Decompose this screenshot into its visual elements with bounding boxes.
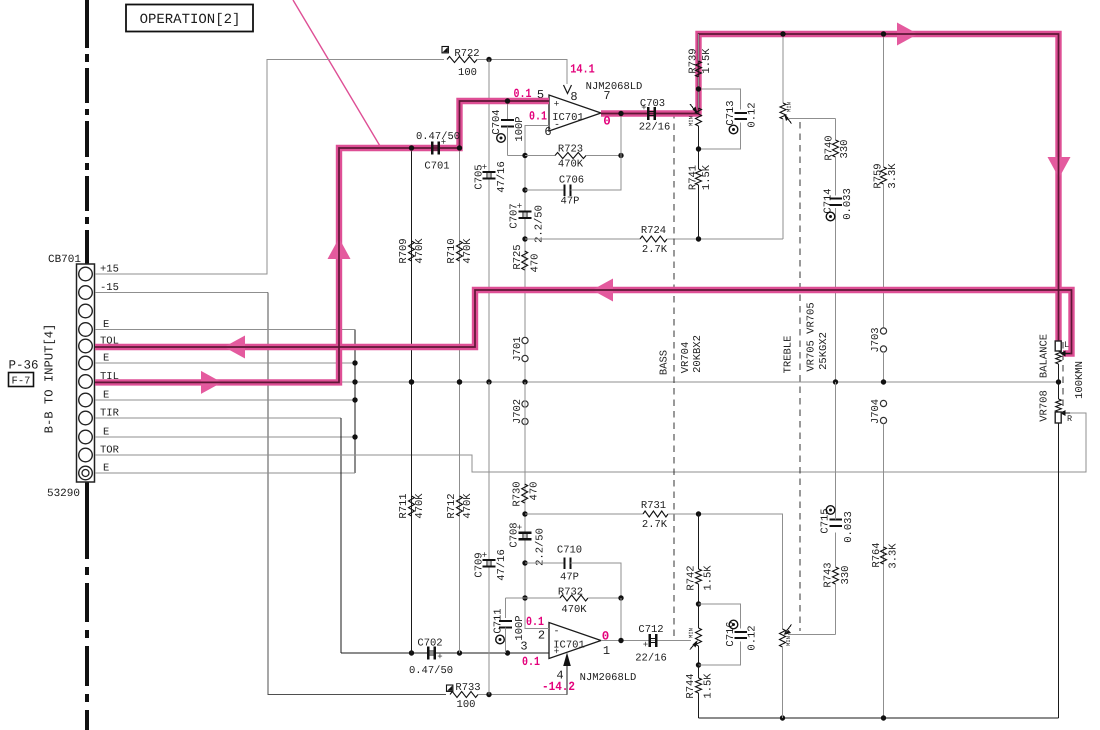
junction R711 bottom — [409, 650, 414, 655]
svg-text:R710: R710 — [446, 238, 458, 263]
capacitor C702 — [409, 638, 453, 678]
highlight TIL input path — [95, 101, 549, 382]
svg-text:47P: 47P — [561, 196, 580, 208]
resistor R724 row — [525, 225, 783, 256]
label BALANCE — [1039, 334, 1051, 378]
svg-text:25KGX2: 25KGX2 — [818, 332, 830, 370]
svg-text:+: + — [517, 523, 522, 533]
pin label E — [103, 463, 109, 475]
wire TIL from CB701 — [95, 381, 339, 383]
svg-text:14.1: 14.1 — [570, 63, 595, 77]
svg-text:C712: C712 — [638, 624, 663, 636]
junction C714 ground — [833, 379, 838, 384]
capacitor C707 — [509, 202, 546, 243]
value 0 pin7 — [603, 115, 611, 129]
page edge dash-dot border (top) — [85, 0, 89, 264]
svg-text:VR705 VR705: VR705 VR705 — [806, 302, 818, 371]
svg-text:C715: C715 — [820, 508, 832, 533]
svg-text:0.1: 0.1 — [522, 655, 540, 669]
resistor R744 — [685, 665, 715, 718]
highlight return arrow — [592, 279, 613, 302]
junction R731 tee — [522, 511, 527, 516]
value 0.1 pin3 — [522, 655, 540, 669]
label VR708 — [1039, 390, 1051, 422]
jumper J702 — [512, 399, 528, 425]
junction C716 top — [696, 601, 701, 606]
resistor R725 — [512, 244, 541, 272]
label VR705 VR705 — [806, 302, 818, 371]
connector CB701 body — [77, 264, 95, 482]
junction C713 top — [696, 86, 701, 91]
highlight right drop arrow — [1048, 157, 1071, 178]
E ground bus — [354, 330, 356, 474]
svg-text:470: 470 — [529, 254, 541, 273]
wire top line under highlight — [699, 33, 1059, 35]
wire E pin — [95, 362, 355, 364]
potentiometer VR705 treble (top) — [780, 102, 792, 239]
junction C705 ground — [486, 379, 491, 384]
svg-text:-14.2: -14.2 — [542, 680, 575, 694]
label 20KBX2 — [692, 335, 704, 373]
wire R733 to IC701 pin4 — [478, 667, 567, 695]
svg-text:0.47/50: 0.47/50 — [416, 131, 460, 143]
junction C716 bottom — [696, 662, 701, 667]
pin label TOR — [100, 445, 120, 457]
svg-text:2: 2 — [538, 629, 545, 643]
svg-text:P-36: P-36 — [8, 359, 38, 373]
junction pin2/C710 — [522, 560, 527, 565]
resistor R741 — [688, 149, 714, 239]
balance VR708 bottom terminal — [1055, 412, 1061, 718]
svg-text:R730: R730 — [512, 481, 524, 506]
capacitor C705 column — [488, 60, 490, 383]
V+ arrow pin8 — [564, 85, 572, 94]
resistor R733 — [447, 682, 481, 711]
value 0.1 pin5 — [514, 87, 532, 101]
capacitor C713 — [699, 89, 759, 149]
junction R709 ground — [409, 379, 414, 384]
pin 2 number — [538, 629, 545, 643]
svg-text:OPERATION[2]: OPERATION[2] — [140, 12, 241, 28]
pin 7 number — [603, 89, 610, 103]
value -14.2 — [542, 680, 575, 694]
value 14.1 — [570, 63, 595, 77]
wire treble wiper row bottom — [788, 634, 836, 636]
svg-text:BASS: BASS — [659, 350, 671, 375]
jumper J703 — [870, 327, 887, 382]
pin label TIR — [100, 408, 120, 420]
capacitor C709 — [474, 549, 509, 581]
svg-text:470K: 470K — [558, 159, 584, 171]
svg-text:R740: R740 — [824, 135, 836, 160]
svg-text:R733: R733 — [455, 682, 480, 694]
bass gang dashed line — [673, 112, 675, 639]
svg-text:3.3K: 3.3K — [887, 163, 899, 189]
svg-text:R744: R744 — [685, 673, 697, 698]
svg-text:NJM2068LD: NJM2068LD — [580, 672, 637, 684]
potentiometer VR704 bass (bottom) — [687, 604, 701, 665]
node -15 decoupling — [486, 692, 491, 697]
junction E bus — [352, 397, 357, 402]
pin label +15 — [100, 264, 119, 276]
svg-text:470K: 470K — [561, 604, 587, 616]
label B-B TO INPUT[4] — [43, 324, 57, 434]
connector CB701 label — [48, 254, 81, 266]
svg-text:0.1: 0.1 — [526, 615, 544, 629]
capacitor C701 — [416, 131, 460, 173]
svg-text:0.12: 0.12 — [747, 102, 759, 127]
svg-text:0.47/50: 0.47/50 — [409, 665, 453, 677]
pin label E — [103, 319, 109, 331]
svg-text:TREBLE: TREBLE — [783, 336, 795, 374]
junction R759 top — [881, 31, 886, 36]
wire +15 from CB701 — [95, 60, 444, 275]
wire C701 row — [339, 147, 460, 149]
label 100KMN — [1074, 361, 1086, 399]
wire pin5 row — [460, 100, 550, 102]
pin 1 number — [603, 644, 610, 658]
svg-text:6: 6 — [544, 125, 551, 139]
pin label TOL — [100, 336, 119, 348]
svg-text:MIN: MIN — [687, 628, 694, 638]
svg-text:100P: 100P — [514, 615, 526, 640]
junction R712 ground — [457, 379, 462, 384]
grid label P-36 — [8, 359, 38, 373]
svg-text:47/16: 47/16 — [496, 161, 508, 193]
svg-text:330: 330 — [840, 566, 852, 585]
svg-text:NJM2068LD: NJM2068LD — [586, 81, 643, 93]
svg-text:0: 0 — [602, 630, 610, 644]
label NJM2068LD (bottom) — [580, 672, 637, 684]
wire TIR from CB701 — [95, 417, 341, 419]
wire output row — [601, 113, 699, 115]
svg-text:R764: R764 — [871, 542, 883, 567]
junction R759 on highlight — [881, 31, 886, 36]
junction E bus — [352, 434, 357, 439]
svg-text:1: 1 — [603, 644, 610, 658]
resistor R711 — [398, 382, 426, 653]
svg-text:VR704: VR704 — [680, 342, 692, 374]
pin 8 number — [570, 90, 577, 104]
balance gang dashed line — [1062, 342, 1064, 413]
svg-text:2.2/50: 2.2/50 — [535, 528, 547, 566]
svg-text:+: + — [482, 551, 487, 561]
wire -15 from CB701 — [95, 292, 268, 294]
junction R710 top — [457, 145, 462, 150]
resistor R759 — [873, 34, 900, 328]
svg-text:8: 8 — [570, 90, 577, 104]
resistor R712 — [446, 382, 474, 653]
junction R764 rail — [881, 715, 886, 720]
wire output column — [620, 114, 622, 191]
node +15 decoupling — [486, 57, 491, 62]
label TREBLE — [783, 336, 795, 374]
svg-text:MIN: MIN — [687, 116, 694, 126]
svg-text:C714: C714 — [823, 188, 835, 213]
label 25KGX2 — [818, 332, 830, 370]
wire E pin — [95, 472, 355, 474]
svg-text:+: + — [437, 652, 442, 662]
capacitor C711 — [493, 598, 527, 653]
label NJM2068LD (top) — [586, 81, 643, 93]
resistor R710 — [446, 148, 474, 382]
wire TIR drop — [340, 418, 342, 653]
svg-text:C716: C716 — [725, 621, 737, 646]
junction R712 bottom — [457, 650, 462, 655]
ground rail — [341, 381, 1059, 383]
capacitor C712 — [635, 624, 667, 665]
svg-text:20KBX2: 20KBX2 — [692, 335, 704, 373]
junction C713 bottom — [696, 146, 701, 151]
jumper J704 — [870, 399, 887, 718]
value 0 pin1 — [602, 630, 610, 644]
wire output center — [601, 34, 1059, 344]
pin label E — [103, 353, 109, 365]
svg-text:0.033: 0.033 — [842, 188, 854, 220]
svg-text:470K: 470K — [414, 238, 426, 264]
highlight TIL arrow — [201, 371, 222, 394]
svg-text:IC701: IC701 — [552, 112, 584, 124]
svg-text:-: - — [553, 627, 559, 638]
junction R709 top — [409, 145, 414, 150]
junction balance ground — [1056, 379, 1061, 384]
svg-text:C702: C702 — [417, 638, 442, 650]
junction treble feed on highlight — [780, 31, 785, 36]
resistor R732 — [525, 587, 621, 617]
connector CB701 pins — [79, 267, 93, 480]
svg-text:1.5K: 1.5K — [701, 48, 713, 74]
V- arrow pin4 — [563, 653, 571, 695]
capacitor C705 — [474, 161, 509, 193]
capacitor C703 — [639, 98, 671, 134]
svg-text:1.5K: 1.5K — [701, 164, 713, 190]
resistor R722 — [442, 47, 480, 80]
pin label E — [103, 427, 109, 439]
junction R724 tee — [522, 236, 527, 241]
svg-text:3: 3 — [520, 640, 527, 654]
svg-text:470: 470 — [529, 482, 541, 501]
capacitor C706 — [525, 156, 621, 208]
svg-text:+: + — [643, 640, 648, 650]
wire -15 drop — [268, 293, 446, 695]
svg-text:B-B TO INPUT[4]: B-B TO INPUT[4] — [43, 324, 57, 434]
connector part number 53290 — [47, 488, 80, 500]
highlight TOL arrow — [224, 336, 245, 359]
svg-text:2.7K: 2.7K — [642, 519, 668, 531]
svg-text:22/16: 22/16 — [635, 653, 667, 665]
svg-text:MIN: MIN — [785, 102, 792, 112]
resistor R731 row — [525, 500, 783, 531]
capacitor C709 column — [488, 382, 490, 695]
capacitor C714 — [823, 188, 855, 382]
OPERATION[2] title box — [126, 5, 253, 32]
capacitor C708 — [509, 522, 547, 566]
wire TOL return to CB701 — [95, 346, 475, 348]
svg-text:0.033: 0.033 — [843, 511, 855, 543]
junction treble top — [780, 31, 785, 36]
op-amp IC701b body — [549, 623, 601, 659]
svg-text:0.1: 0.1 — [514, 87, 532, 101]
wire output column bottom — [620, 598, 622, 641]
pin 6 number — [544, 125, 551, 139]
svg-text:C701: C701 — [424, 161, 449, 173]
svg-text:100KMN: 100KMN — [1074, 361, 1086, 399]
svg-text:100P: 100P — [514, 116, 526, 141]
op-amp IC701a body — [549, 95, 601, 131]
svg-text:R: R — [1067, 414, 1072, 424]
wire E pin — [95, 399, 355, 401]
svg-text:0.1: 0.1 — [529, 110, 547, 124]
junction R724/R741 — [696, 236, 701, 241]
svg-text:C704: C704 — [491, 109, 503, 134]
value 0.1 pin6 — [529, 110, 547, 124]
pin label TIL — [100, 371, 119, 383]
svg-text:22/16: 22/16 — [639, 122, 671, 134]
junction J703 ground — [881, 379, 886, 384]
svg-text:MIN: MIN — [785, 636, 792, 646]
resistor R709 — [398, 148, 426, 382]
junction treble bottom rail — [780, 715, 785, 720]
resistor R739 — [688, 34, 714, 108]
junction E bus — [352, 360, 357, 365]
svg-text:R724: R724 — [641, 225, 666, 237]
page edge dash-dot border (bottom) — [85, 482, 89, 730]
pin 5 number — [537, 88, 544, 102]
junction pin6/R723 — [522, 153, 527, 158]
wire treble wiper row — [788, 118, 836, 120]
svg-text:R743: R743 — [823, 562, 835, 587]
svg-text:C706: C706 — [559, 175, 584, 187]
grid label F-7 box — [9, 373, 34, 388]
svg-text:+: + — [554, 99, 560, 110]
pin label E — [103, 390, 109, 402]
svg-text:3.3K: 3.3K — [888, 543, 900, 569]
svg-text:VR708: VR708 — [1039, 390, 1051, 422]
svg-text:+: + — [517, 202, 522, 212]
capacitor C715 — [820, 382, 856, 543]
wire return under highlight — [475, 290, 1071, 354]
svg-text:1.5K: 1.5K — [703, 565, 715, 591]
svg-text:+: + — [641, 103, 646, 113]
wire treble pot top feed — [782, 34, 784, 103]
pin 4 number — [556, 669, 563, 683]
junction ground/E bus — [352, 379, 357, 384]
svg-text:R725: R725 — [512, 244, 524, 269]
svg-text:470K: 470K — [462, 493, 474, 519]
svg-text:53290: 53290 — [47, 488, 80, 500]
resistor R740 — [824, 119, 852, 196]
potentiometer VR705 treble (bottom) — [780, 514, 792, 718]
wire TOR to CB701 — [95, 413, 1086, 472]
svg-text:1.5K: 1.5K — [703, 673, 715, 699]
wire pin2 stub — [525, 382, 549, 629]
label VR704 — [680, 342, 692, 374]
svg-text:0: 0 — [603, 115, 611, 129]
svg-text:47/16: 47/16 — [496, 549, 508, 581]
svg-text:330: 330 — [839, 140, 851, 159]
junction output/C703 — [618, 111, 623, 116]
junction column ground — [522, 379, 527, 384]
svg-text:BALANCE: BALANCE — [1039, 334, 1051, 378]
wire C704 to R723 row — [508, 155, 526, 157]
wire C702 row — [341, 652, 549, 654]
wire pin6 stub — [525, 126, 549, 383]
wire E pin — [95, 329, 355, 331]
svg-text:R712: R712 — [446, 493, 458, 518]
capacitor C704 — [491, 101, 526, 156]
svg-text:+: + — [482, 163, 487, 173]
svg-text:R711: R711 — [398, 493, 410, 518]
highlight output path — [601, 34, 1059, 344]
label BASS — [659, 350, 671, 375]
wire TIL center — [95, 101, 549, 382]
svg-text:R709: R709 — [398, 238, 410, 263]
junction C711 bottom — [505, 650, 510, 655]
capacitor C710 — [525, 545, 621, 599]
value 0.1 pin2 — [526, 615, 544, 629]
svg-text:100: 100 — [457, 699, 476, 711]
svg-text:IC701: IC701 — [553, 640, 585, 652]
capacitor C716 — [699, 604, 759, 665]
svg-text:470K: 470K — [414, 493, 426, 519]
svg-text:+: + — [441, 138, 446, 148]
wire return center — [95, 290, 1072, 354]
highlight riser arrow — [328, 238, 351, 259]
highlight return path — [95, 290, 1072, 354]
resistor R743 — [823, 532, 853, 634]
junction pin2/R732 — [522, 595, 527, 600]
svg-text:2.7K: 2.7K — [642, 244, 668, 256]
svg-text:L: L — [1064, 340, 1069, 350]
potentiometer VR704 bass (top) — [687, 104, 701, 149]
wire bottom rail — [699, 717, 1059, 719]
wire E pin — [95, 436, 355, 438]
svg-text:100: 100 — [458, 67, 477, 79]
junction C704 top — [505, 98, 510, 103]
highlight top arrow — [897, 23, 918, 46]
junction R723 output — [618, 153, 623, 158]
jumper J701 — [512, 336, 528, 361]
wire right drop under highlight — [1058, 34, 1060, 341]
leader line to highlighted path — [293, 0, 380, 146]
potentiometer VR708 balance upper — [1056, 340, 1070, 399]
pin label -15 — [100, 282, 119, 294]
resistor R730 — [512, 481, 541, 506]
junction R710 ground — [457, 379, 462, 384]
wire R722 to IC701 pin8 — [477, 60, 567, 85]
potentiometer VR708 balance lower — [1056, 399, 1072, 424]
treble gang dashed line — [799, 122, 801, 631]
junction R731/R742 — [696, 511, 701, 516]
balance VR708 top terminal — [1055, 341, 1061, 351]
junction R732 output — [618, 595, 623, 600]
resistor R742 — [686, 514, 715, 604]
svg-text:0.12: 0.12 — [747, 625, 759, 650]
junction R711 ground — [409, 379, 414, 384]
resistor R764 — [871, 542, 900, 568]
svg-text:C710: C710 — [557, 545, 582, 557]
wire pin1 row — [601, 640, 691, 642]
svg-text:470K: 470K — [462, 238, 474, 264]
svg-text:F-7: F-7 — [12, 376, 31, 388]
svg-text:47P: 47P — [560, 572, 579, 584]
resistor R723 — [525, 144, 621, 171]
junction pin6/C706 — [522, 187, 527, 192]
svg-text:2.2/50: 2.2/50 — [534, 205, 546, 243]
pin 3 number — [520, 640, 527, 654]
junction pin1/C712 — [618, 638, 623, 643]
